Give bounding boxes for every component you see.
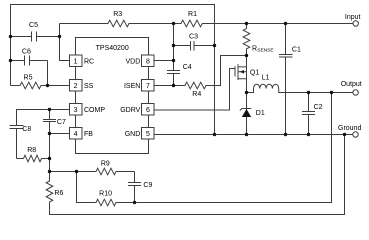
svg-text:R5: R5 <box>24 74 33 81</box>
svg-text:C4: C4 <box>183 64 192 71</box>
svg-text:2: 2 <box>74 83 78 90</box>
svg-text:R1: R1 <box>188 11 197 18</box>
svg-text:C2: C2 <box>314 104 323 111</box>
svg-text:GDRV: GDRV <box>120 107 140 114</box>
svg-text:D1: D1 <box>256 110 265 117</box>
svg-text:VDD: VDD <box>126 59 141 66</box>
svg-text:5: 5 <box>146 131 150 138</box>
svg-text:6: 6 <box>146 107 150 114</box>
svg-text:SS: SS <box>84 83 94 90</box>
svg-text:C5: C5 <box>29 22 38 29</box>
svg-text:SENSE: SENSE <box>257 48 273 54</box>
svg-text:R8: R8 <box>27 147 36 154</box>
svg-text:TPS40200: TPS40200 <box>96 45 129 52</box>
svg-text:C6: C6 <box>22 48 31 55</box>
svg-text:3: 3 <box>74 107 78 114</box>
svg-text:Input: Input <box>345 14 361 21</box>
svg-text:C7: C7 <box>57 119 66 126</box>
svg-text:C1: C1 <box>292 46 301 53</box>
svg-text:GND: GND <box>125 131 141 138</box>
svg-text:8: 8 <box>146 59 150 66</box>
svg-text:C9: C9 <box>143 182 152 189</box>
svg-text:Output: Output <box>341 81 362 88</box>
svg-text:R9: R9 <box>101 160 110 167</box>
svg-text:C8: C8 <box>22 126 31 133</box>
svg-text:R: R <box>252 45 257 52</box>
svg-text:R6: R6 <box>54 190 63 197</box>
svg-text:FB: FB <box>84 131 93 138</box>
svg-text:4: 4 <box>74 131 78 138</box>
svg-text:ISEN: ISEN <box>124 83 140 90</box>
svg-text:RC: RC <box>84 59 94 66</box>
svg-text:R4: R4 <box>192 91 201 98</box>
svg-text:COMP: COMP <box>84 107 105 114</box>
svg-text:R3: R3 <box>113 11 122 18</box>
svg-text:1: 1 <box>74 59 78 66</box>
svg-text:R10: R10 <box>99 190 112 197</box>
svg-text:C3: C3 <box>189 33 198 40</box>
svg-text:L1: L1 <box>262 75 270 82</box>
svg-text:Ground: Ground <box>338 125 361 132</box>
svg-text:7: 7 <box>146 83 150 90</box>
svg-text:Q1: Q1 <box>250 70 259 77</box>
